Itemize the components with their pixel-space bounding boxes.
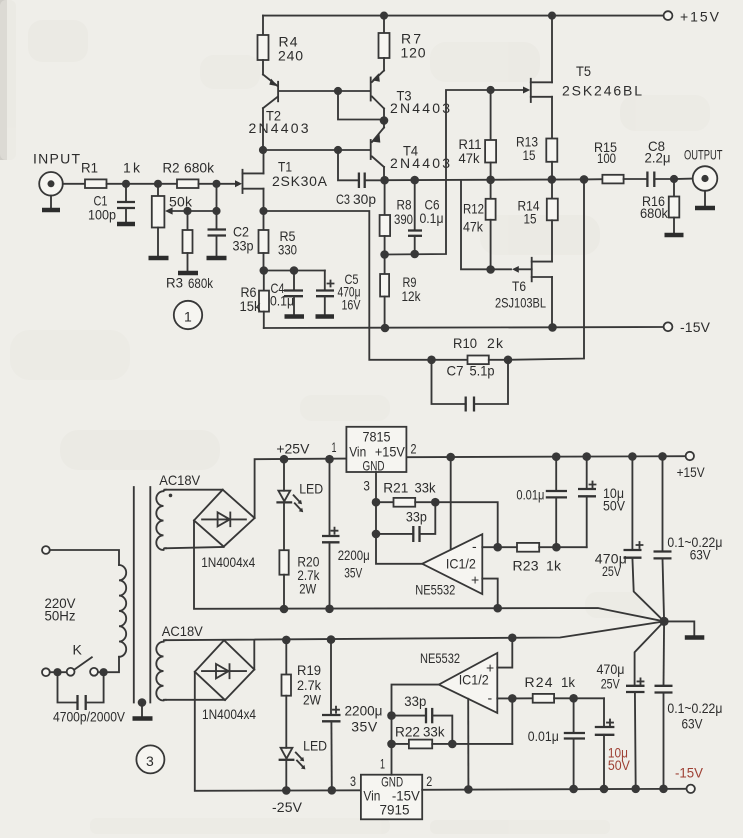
node: T3 collector / T4 emitter [380, 116, 389, 125]
node: R8 bottom [380, 250, 389, 259]
node: R19 top on 0V [282, 636, 291, 645]
svg-text:2200μ: 2200μ [345, 703, 383, 719]
svg-text:50Hz: 50Hz [45, 608, 76, 624]
wire: output node to T6 gate [461, 180, 511, 269]
scan smudges (decorative) [0, 0, 7, 160]
resistor R23 1k [498, 543, 587, 574]
wire: 7915 GND pin up / opamp output (lower) [392, 685, 439, 775]
node: R22 left [387, 740, 396, 749]
wire: inverting input [482, 546, 497, 548]
capacitor C4 0.1u [270, 271, 303, 315]
svg-text:35V: 35V [344, 565, 362, 581]
svg-text:390: 390 [394, 211, 413, 227]
svg-text:2W: 2W [299, 581, 317, 597]
capacitor 2200u 35V (upper) [322, 459, 370, 609]
resistor R19 2.7k 2W [282, 640, 322, 748]
LED (upper) [276, 459, 323, 550]
transformer primary 220V [119, 565, 126, 657]
fig label 3 [136, 745, 164, 773]
svg-text:T5: T5 [576, 63, 591, 79]
svg-text:1: 1 [380, 756, 385, 772]
node: 470u lower bottom [631, 785, 640, 794]
svg-text:C7: C7 [447, 363, 464, 379]
resistor R20 2.7k 2W [279, 550, 320, 609]
svg-text:2: 2 [411, 441, 417, 457]
wire: R1 to R2 [107, 183, 178, 185]
node: C4 top [290, 266, 299, 275]
wire: opamp output to GND pin node [376, 534, 422, 564]
OUTPUT jack [674, 147, 723, 207]
svg-text:63V: 63V [682, 716, 704, 732]
svg-text:47k: 47k [463, 219, 484, 235]
resistor R2 680k [163, 160, 237, 189]
wire: gate node down to wiper line [216, 184, 218, 211]
switch K [42, 642, 98, 677]
capacitor 10u 50V (lower) [595, 698, 631, 789]
svg-text:15k: 15k [240, 298, 262, 314]
node: R22/33p right [448, 740, 457, 749]
wire: T2 base to T3 base [280, 90, 371, 92]
capacitor 0.1~0.22u 63V (lower) [655, 621, 723, 788]
capacitor 0.1~0.22u 63V (upper) [654, 456, 723, 621]
svg-text:0.1μ: 0.1μ [270, 293, 294, 309]
node: R11/R12 junction [486, 176, 495, 185]
svg-text:+25V: +25V [276, 441, 310, 457]
svg-text:47k: 47k [459, 150, 481, 166]
node: C2 top [212, 207, 220, 215]
resistor R1 1k [81, 160, 141, 189]
+15V rail [263, 9, 720, 25]
ground (core) [133, 716, 153, 721]
ground (R16) [665, 233, 684, 238]
node: 4700p left [53, 668, 61, 676]
node: R21 left [372, 498, 381, 507]
ground (pot) [149, 256, 169, 261]
node: 2200u lower bottom on -25V [328, 786, 337, 795]
INPUT jack [33, 151, 80, 209]
svg-text:R24: R24 [525, 674, 553, 690]
svg-text:INPUT: INPUT [33, 151, 80, 167]
node: R10/C7 left [427, 356, 436, 365]
resistor R24 1k [512, 674, 604, 703]
capacitor 10u 50V (upper) [578, 457, 626, 548]
svg-text:3: 3 [363, 478, 370, 494]
svg-text:15: 15 [524, 211, 537, 227]
svg-text:-25V: -25V [272, 799, 303, 815]
resistor R21 33k [376, 480, 436, 507]
resistor R9 12k [380, 255, 421, 329]
svg-text:50V: 50V [608, 757, 631, 773]
resistor R13 15 [516, 134, 557, 180]
LED (lower) [279, 738, 328, 791]
-15V rail [264, 319, 711, 335]
node: LED branch top [280, 455, 289, 464]
svg-text:LED: LED [303, 738, 327, 754]
node: 33p lower left [387, 711, 396, 720]
node: LED bottom on -25V [282, 786, 291, 795]
bridge rectifier upper 1N4004x4 [194, 490, 255, 570]
ground (C1) [117, 222, 135, 227]
svg-text:100: 100 [597, 150, 616, 166]
node: 4700p right [100, 668, 108, 676]
wire: T2 collector to T4 base [263, 149, 371, 151]
node: T1 gate / C2 branch [212, 180, 220, 188]
wire: bridge + up to 0V line [253, 640, 255, 670]
svg-text:5.1p: 5.1p [470, 363, 495, 379]
capacitor 0.01u (lower) [528, 698, 585, 789]
svg-text:R10: R10 [453, 335, 477, 351]
terminal: mains top [42, 546, 50, 554]
bridge rectifier lower 1N4004x4 [195, 640, 256, 722]
svg-text:33k: 33k [423, 724, 445, 740]
capacitor C1 100p [88, 184, 135, 223]
node: 0.01u top [552, 452, 561, 461]
node: 2200u lower top on 0V [327, 635, 336, 644]
arrow: T5 gate [523, 87, 530, 94]
resistor R14 15 [518, 180, 558, 262]
-15V output rail (lower) [422, 765, 703, 794]
svg-text:35V: 35V [351, 719, 378, 735]
svg-text:-15V: -15V [680, 319, 711, 335]
svg-text:R19: R19 [297, 662, 321, 678]
wire: lower node to T5 gate [385, 90, 525, 255]
transformer core [134, 487, 151, 716]
wire: feedback from T1 source [264, 211, 432, 360]
transistor T6 2SJ103BL [495, 258, 552, 328]
svg-text:+15V: +15V [677, 464, 706, 480]
node: noninv tap lower on 0V [508, 634, 517, 643]
wire: 0V line (lower) [164, 621, 664, 640]
op-amp U=IC1/2 NE5532 (upper) [415, 534, 482, 597]
resistor R4 [258, 16, 304, 75]
ground (C5) [316, 314, 335, 319]
svg-text:15: 15 [523, 147, 536, 163]
capacitor 4700p/2000V [53, 672, 126, 724]
regulator 7915 [350, 756, 432, 820]
svg-text:C3: C3 [336, 191, 350, 207]
wire: inverting input line (lower) [497, 697, 512, 699]
svg-text:25V: 25V [602, 563, 621, 579]
node: 470u top [628, 452, 637, 461]
wire: output node line [384, 179, 602, 180]
transistor T3 2N4403 [371, 71, 451, 121]
transistor T1 2SK30A [235, 150, 328, 211]
resistor R15 100 [594, 139, 647, 183]
+15V output rail (upper) [407, 452, 706, 480]
wire: primary bottom to switch [98, 657, 119, 672]
node: rail junction R7 [380, 12, 388, 20]
svg-text:30p: 30p [353, 191, 376, 207]
svg-text:33k: 33k [415, 480, 437, 496]
svg-text:100p: 100p [88, 207, 116, 223]
wire: bridge - down to -25V rail [195, 672, 361, 791]
resistor R22 33k [392, 724, 513, 749]
fig label 1 [174, 301, 202, 329]
svg-text:50V: 50V [603, 498, 626, 514]
svg-text:33p: 33p [406, 509, 427, 525]
wire: bridge + up to +25V rail [255, 459, 347, 518]
node: V- on 7915 out line [464, 785, 473, 794]
svg-text:GND: GND [363, 458, 385, 474]
node: T4 collector / R8 / C3 [380, 176, 389, 185]
svg-text:4700p/2000V: 4700p/2000V [53, 709, 126, 725]
wire: opamp V- to -15V line [467, 699, 469, 790]
svg-text:IC1/2: IC1/2 [446, 556, 476, 572]
node: feedback tap [580, 175, 589, 184]
svg-text:25V: 25V [601, 676, 620, 692]
node: C1 tap [122, 180, 130, 188]
svg-text:120: 120 [401, 45, 426, 61]
svg-text:OUTPUT: OUTPUT [684, 147, 723, 163]
node: C6 top [410, 176, 419, 185]
capacitor C8 2.2u [645, 138, 675, 187]
svg-text:NE5532: NE5532 [420, 650, 460, 666]
node: star ground [660, 617, 669, 626]
svg-text:680k: 680k [184, 160, 215, 176]
resistor R6 15k [240, 271, 270, 329]
ground (R3) [178, 271, 198, 276]
node: 2200u top [325, 455, 334, 464]
svg-text:R23: R23 [513, 558, 539, 574]
svg-text:2.2μ: 2.2μ [645, 150, 671, 166]
svg-text:0.1~0.22μ: 0.1~0.22μ [667, 700, 722, 716]
resistor R10 2k [432, 335, 509, 364]
wire: R21 node to opamp inverting input [435, 502, 497, 547]
node: rail junction T5 drain [548, 12, 556, 20]
node: 10u top [582, 452, 591, 461]
svg-text:Vin: Vin [363, 788, 380, 804]
resistor R3 680k [166, 211, 214, 291]
svg-text:R22: R22 [395, 724, 420, 740]
svg-text:T6: T6 [512, 278, 526, 294]
svg-text:7815: 7815 [363, 429, 391, 445]
node: T6 drain on -15V rail [548, 323, 557, 332]
node: R16 tap [670, 175, 678, 183]
svg-text:680k: 680k [640, 205, 669, 221]
op-amp U=IC1/2 NE5532 (lower) [420, 650, 497, 713]
svg-text:3: 3 [146, 753, 154, 769]
ground (output jack) [695, 206, 715, 211]
capacitor 0.01u (upper) [516, 457, 567, 548]
wire: 7815 GND pin [375, 472, 377, 534]
wire: sec upper to bridge AC [165, 489, 223, 491]
svg-text:+: + [471, 572, 479, 588]
node: R9 bottom on -15V rail [381, 324, 390, 333]
wire: mains top to primary [50, 550, 119, 565]
svg-text:2SJ103BL: 2SJ103BL [495, 295, 546, 311]
resistor R8 390 [380, 180, 414, 255]
node: 10u lower bottom [600, 785, 609, 794]
node: R12 bottom on T6 gate line [486, 265, 495, 274]
svg-text:R3: R3 [166, 275, 183, 291]
wire: opamp V+ from +15V rail [450, 457, 452, 549]
node: inv input lower [508, 694, 517, 703]
transformer secondary lower AC18V [156, 623, 203, 701]
svg-text:1N4004x4: 1N4004x4 [201, 554, 255, 570]
svg-text:2k: 2k [487, 335, 504, 351]
transistor T4 2N4403 [371, 121, 451, 181]
svg-text:LED: LED [299, 481, 323, 497]
capacitor 470u 25V (lower) [597, 621, 665, 788]
node: R23 right / 0.01u bottom [552, 543, 561, 552]
resistor R7 [379, 16, 426, 71]
node: 0.01u lower bottom [569, 785, 578, 794]
svg-text:R1: R1 [81, 160, 98, 176]
svg-text:240: 240 [278, 48, 303, 64]
regulator 7815 [332, 427, 417, 494]
resistor R5 330 [259, 211, 298, 271]
svg-text:AC18V: AC18V [162, 623, 204, 639]
resistor R16 680k [640, 179, 679, 233]
svg-text:1k: 1k [561, 674, 576, 690]
svg-text:2200μ: 2200μ [338, 547, 370, 563]
svg-text:+15V: +15V [680, 9, 720, 25]
wire: feedback up to inverting input (lower) [511, 698, 513, 744]
capacitor C7 5.1p [432, 360, 509, 412]
svg-text:R12: R12 [463, 201, 484, 217]
wire: noninv input to 0V [482, 579, 497, 609]
svg-text:680k: 680k [188, 275, 214, 291]
node: C6 bottom [410, 250, 419, 259]
capacitor C5 470u 16V [316, 271, 361, 315]
capacitor C3 30p [336, 150, 384, 207]
node: opamp V+ tap [446, 453, 455, 462]
node: base tie [334, 87, 342, 95]
transistor T5 2SK246BL [531, 16, 642, 139]
svg-text:1: 1 [184, 309, 192, 325]
svg-text:0.01μ: 0.01μ [516, 487, 544, 503]
node: R5/R6/C4 junction [260, 266, 269, 275]
wire: jack to R1 [63, 183, 85, 185]
capacitor C6 0.1u [408, 180, 444, 254]
node: R21/33p right [431, 498, 440, 507]
svg-text:7915: 7915 [380, 802, 410, 818]
node: pot tap [154, 180, 162, 188]
svg-text:0.01μ: 0.01μ [528, 728, 559, 744]
svg-text:33p: 33p [404, 693, 426, 709]
arrow: T6 gate (pointing left) [512, 266, 519, 273]
svg-text:63V: 63V [690, 547, 712, 563]
svg-text:NE5532: NE5532 [415, 582, 455, 598]
svg-text:-15V: -15V [675, 765, 704, 781]
svg-text:-: - [472, 538, 477, 554]
node: 33p left / opamp out [372, 530, 381, 539]
svg-text:AC18V: AC18V [159, 472, 201, 488]
node: noninv on 0V [493, 604, 502, 613]
resistor R12 47k [463, 180, 496, 270]
node: T2 collector / T1 drain [259, 146, 267, 154]
capacitor 2200u 35V (lower) [322, 640, 383, 791]
node: T1 source [259, 207, 267, 215]
transistor T2 2N4403 [249, 75, 309, 151]
svg-text:16V: 16V [342, 297, 361, 313]
capacitor 470u 25V (upper) [595, 457, 664, 622]
ground (star node) [664, 621, 704, 637]
svg-text:12k: 12k [402, 288, 422, 304]
capacitor 33p (lower) [392, 693, 453, 744]
capacitor C2 33p [208, 211, 254, 256]
node: R10/C7 right [504, 356, 513, 365]
node: R3 tap on wiper line [183, 207, 191, 215]
node: C3 branch on base line [334, 146, 342, 154]
potentiometer 50k [152, 184, 217, 256]
node: R20 bottom on 0V [280, 605, 289, 614]
transformer secondary upper AC18V [156, 472, 201, 550]
svg-text:K: K [73, 642, 83, 658]
wire: R10 right up to output line [508, 179, 584, 359]
capacitor 33p (upper) [376, 502, 435, 542]
wire: bridge - down to 0V line [194, 520, 664, 621]
svg-text:R2: R2 [163, 160, 180, 176]
ground (C2) [207, 256, 227, 261]
node: 0.1-0.22u lower bottom [659, 785, 668, 794]
node: R24 right / 0.01u lower top [569, 694, 578, 703]
ground (input jack) [42, 208, 60, 213]
node: inv input / R23 [493, 543, 502, 552]
node: R11 top on gate line [487, 86, 495, 94]
svg-text:3: 3 [350, 773, 356, 789]
svg-text:1k: 1k [546, 558, 562, 574]
node: 2200u bottom on 0V [325, 605, 334, 614]
svg-text:-: - [488, 690, 493, 706]
svg-text:IC1/2: IC1/2 [459, 672, 489, 688]
ground (C4) [285, 314, 305, 319]
svg-text:1: 1 [332, 439, 337, 455]
svg-text:470μ: 470μ [597, 661, 625, 677]
svg-text:2SK30A: 2SK30A [272, 173, 328, 189]
wire: noninv input to 0V (lower) [497, 638, 512, 668]
resistor R11 47k [459, 90, 497, 180]
wire: sec lower bottom AC [164, 699, 225, 701]
svg-text:0.1μ: 0.1μ [420, 210, 444, 226]
svg-text:50k: 50k [169, 194, 193, 210]
svg-text:R21: R21 [383, 480, 408, 496]
node: R13/R14 junction [548, 175, 557, 184]
svg-text:33p: 33p [233, 238, 254, 254]
svg-text:2W: 2W [303, 691, 322, 707]
wire: base tie to T3 collector node [338, 91, 384, 120]
svg-text:1N4004x4: 1N4004x4 [202, 706, 256, 722]
wire: R5 node to C4/C5 [264, 270, 325, 272]
svg-text:330: 330 [278, 242, 297, 258]
svg-text:2: 2 [426, 773, 432, 789]
node: 0.1-0.22u top [658, 452, 667, 461]
